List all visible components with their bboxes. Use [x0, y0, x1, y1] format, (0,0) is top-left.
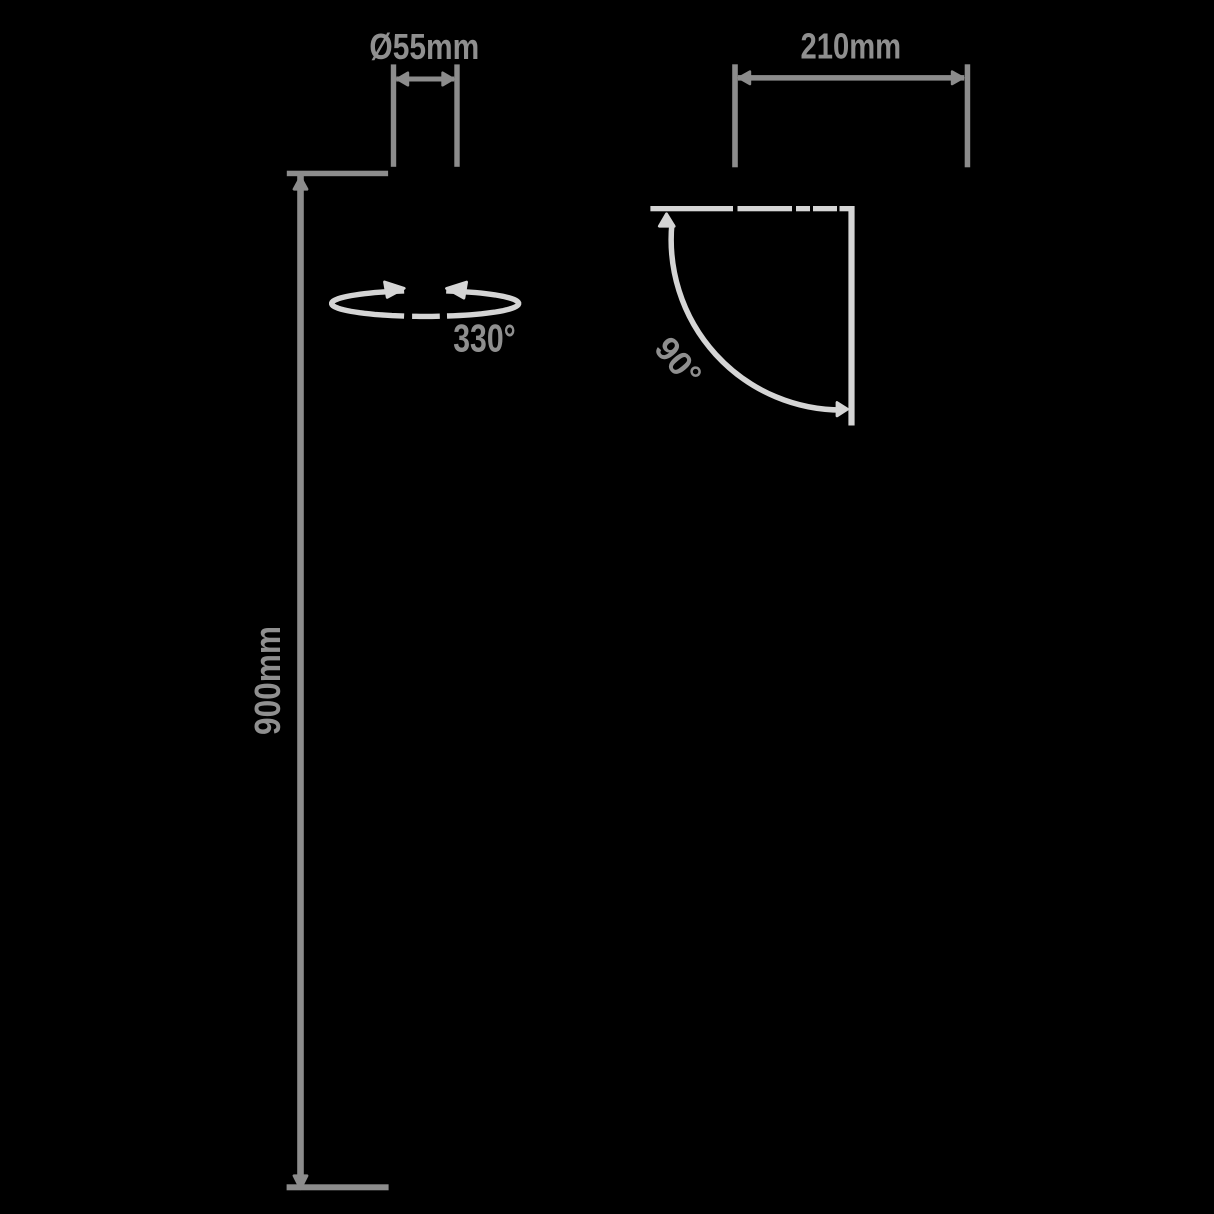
- swivel dashed line segment 5: [840, 206, 853, 211]
- rotation ellipse right arc: [446, 291, 518, 316]
- Ø55 right arrowhead: [443, 73, 454, 85]
- rotation right arrowhead: [447, 282, 467, 298]
- 210mm dimension line: [738, 75, 964, 81]
- 90° arc bottom arrowhead: [837, 403, 848, 416]
- 210mm left arrowhead: [739, 72, 750, 84]
- svg-text:210mm: 210mm: [800, 27, 901, 68]
- 90° arc: [671, 224, 842, 410]
- swivel dashed line segment 2: [738, 206, 793, 211]
- swivel dashed line segment 3: [796, 206, 810, 211]
- swivel dashed line segment 1: [650, 206, 733, 211]
- rotation left arrowhead: [385, 282, 405, 298]
- 900mm bottom extension line: [287, 1184, 389, 1190]
- 90° arc top arrowhead: [659, 214, 674, 226]
- 900mm dimension line: [297, 176, 304, 1190]
- 900mm bottom arrowhead: [294, 1176, 307, 1189]
- rotation ellipse left arc: [332, 291, 404, 316]
- svg-text:330°: 330°: [453, 317, 515, 361]
- rotation ellipse bottom dash: [412, 314, 440, 320]
- svg-text:900mm: 900mm: [248, 626, 289, 735]
- 900mm top arrowhead: [294, 177, 307, 189]
- pole right extension line: [454, 64, 459, 166]
- Ø55 left arrowhead: [397, 73, 408, 85]
- swivel vertical line: [848, 206, 854, 426]
- svg-text:Ø55mm: Ø55mm: [369, 27, 479, 67]
- 210mm right arrowhead: [952, 72, 963, 84]
- 210mm right tick: [965, 64, 971, 167]
- 210mm left tick: [732, 64, 738, 167]
- 900mm top extension line: [287, 171, 388, 177]
- swivel dashed line segment 4: [813, 206, 837, 211]
- Ø55 dimension line: [396, 77, 454, 82]
- pole left extension line: [391, 64, 396, 166]
